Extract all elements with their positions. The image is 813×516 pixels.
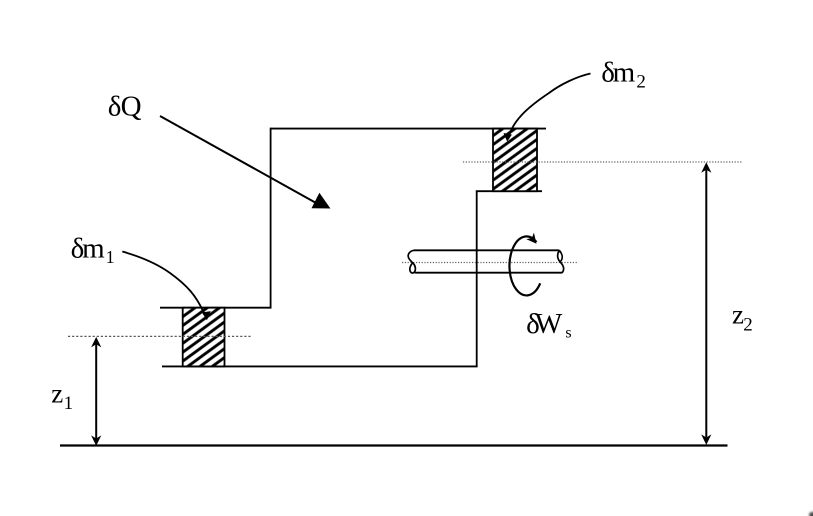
control volume bottom wall (162, 365, 478, 367)
control volume right wall (476, 191, 478, 368)
artifact dot bottom-right corner (809, 512, 813, 516)
shaft break squiggle right (558, 250, 564, 272)
ground / datum line (60, 444, 728, 446)
svg-text:z2: z2 (732, 300, 753, 336)
shaft cylinder top line (414, 249, 559, 251)
leader arrow dm2 (504, 74, 591, 142)
dotted line at z1 level (68, 335, 252, 337)
inlet port dm1 (hatched plug) (183, 308, 225, 367)
shaft break squiggle left (408, 250, 415, 273)
control volume top wall (270, 128, 546, 130)
outlet port dm2 (hatched plug) (493, 129, 537, 192)
control volume left wall (270, 128, 272, 309)
rotation arrow around shaft (509, 233, 540, 296)
inlet duct ledge (dm1 top) (160, 307, 272, 309)
svg-text:δQ: δQ (108, 91, 142, 123)
heat transfer arrow dQ (160, 116, 330, 209)
shaft cylinder bottom line (415, 272, 562, 274)
leader arrow dm1 (122, 252, 210, 321)
shaft centerline dotted (402, 262, 579, 264)
outlet duct ledge (dm2 bottom) (476, 190, 542, 192)
datum dotted line at z2 level (463, 161, 742, 163)
svg-text:δm2: δm2 (601, 57, 646, 93)
dimension arrow z1 (double headed) (91, 337, 101, 446)
dimension arrow z2 (double headed) (701, 162, 711, 445)
svg-text:z1: z1 (51, 379, 73, 415)
svg-text:δm1: δm1 (71, 233, 115, 267)
svg-text:δWs: δWs (526, 308, 572, 342)
